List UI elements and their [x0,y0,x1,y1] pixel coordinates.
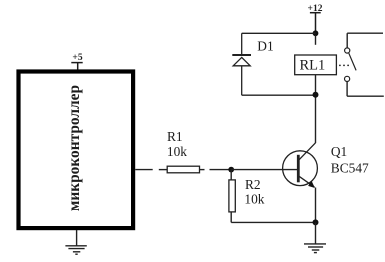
wire bottom contact to edge [347,82,384,97]
relay contact terminal (bottom) [345,76,350,81]
wire top contact to edge [347,33,383,48]
wire supply node to RL1 [315,35,317,45]
relay contact terminal (top) [345,48,350,53]
Q1 emitter arrow [308,181,315,188]
microcontroller box [19,72,134,229]
svg-text:BC547: BC547 [331,160,369,175]
emitter node junction [313,219,319,225]
svg-text:RL1: RL1 [300,57,326,73]
svg-text:D1: D1 [257,39,273,54]
transistor Q1 [283,143,318,187]
+5 power symbol [71,63,82,70]
svg-text:+5: +5 [72,53,82,63]
relay contact blade [349,53,356,70]
wire R2 to emitter rail [231,212,315,223]
ground (microcontroller) [65,230,86,254]
diode D1 [232,33,251,95]
Q1 emitter wire [315,188,317,223]
svg-text:Q1: Q1 [331,144,347,159]
wire node to Q1 base [231,169,297,171]
wire R1 to node [200,169,232,171]
resistor R1 [167,166,199,173]
svg-text:R2: R2 [245,177,261,192]
wire mc to R1 [135,169,167,171]
svg-text:R1: R1 [167,129,183,144]
collector node junction [313,92,319,98]
resistor R2 [229,180,235,212]
svg-text:микроконтроллер: микроконтроллер [66,85,83,211]
+12 power symbol [310,13,321,34]
wire RL1 to collector node [315,75,317,95]
node junction (base node) [228,167,234,173]
svg-text:10k: 10k [167,144,187,159]
wire node to R2 [230,170,232,180]
wire supply node to D1 [242,32,316,34]
Q1 collector wire [315,95,317,143]
relay actuation dotted link [339,65,349,67]
svg-text:10k: 10k [244,192,264,207]
svg-text:+12: +12 [308,4,323,14]
relay coil RL1 [295,55,337,75]
ground (emitter) [304,222,326,252]
supply node junction [313,30,319,36]
wire D1 to collector node [242,94,316,96]
